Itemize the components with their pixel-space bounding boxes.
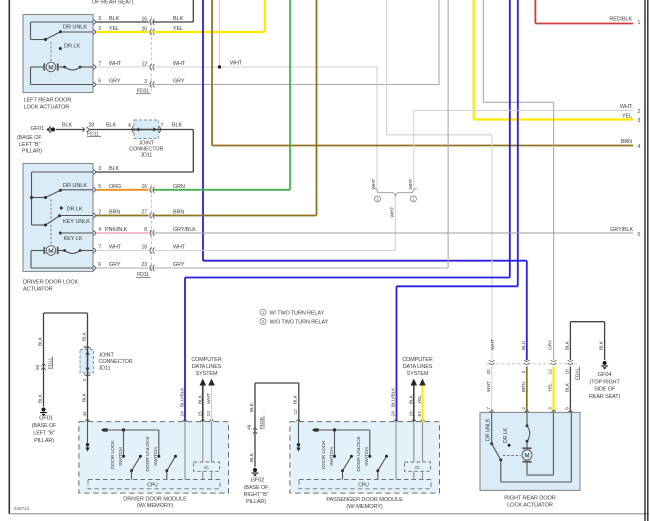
svg-text:YEL: YEL [622, 113, 632, 119]
driver actuator DR LK contact [60, 207, 63, 210]
module data wires into IC [413, 422, 415, 462]
svg-text:KEY LK: KEY LK [64, 236, 83, 242]
wire BRN driver to top edge at x=316.5 [153, 215, 317, 217]
svg-text:SWITCH: SWITCH [118, 447, 124, 466]
svg-text:16: 16 [565, 369, 571, 375]
svg-text:3: 3 [548, 407, 554, 410]
svg-text:KEY UNLK: KEY UNLK [63, 219, 90, 225]
svg-text:CPU: CPU [358, 482, 369, 488]
wire BLK driver pin 3 to GF01 corner [96, 171, 193, 173]
left rear door lock actuator box [23, 15, 93, 93]
joint connector JD11 horizontal [131, 120, 162, 139]
wire GRY left rear rises to top edge at x=439 [153, 84, 439, 86]
wire BLK from JD11 into driver door module pin 4 [87, 373, 89, 422]
svg-text:23: 23 [141, 262, 147, 268]
wire WHT left rear pin 7 to connector [96, 66, 148, 68]
wire BLU vertical x=517.8 from top edge to passenger door module pin 24 [517, 0, 519, 286]
svg-text:BRN: BRN [621, 139, 632, 145]
svg-text:YEL: YEL [548, 383, 554, 392]
svg-text:JOINT: JOINT [99, 353, 115, 359]
svg-text:RIGHT REAR DOOR: RIGHT REAR DOOR [504, 496, 556, 502]
svg-text:BLK: BLK [82, 392, 88, 402]
svg-text:PILLAR): PILLAR) [34, 438, 54, 444]
svg-text:CPU: CPU [147, 482, 158, 488]
circled 2 relay variant marker [375, 196, 381, 202]
svg-text:4: 4 [98, 227, 101, 233]
svg-text:24: 24 [391, 411, 397, 417]
module pin 24 wire to CPU [395, 422, 397, 480]
svg-text:SYSTEM: SYSTEM [196, 371, 218, 377]
left rear actuator DR LK contact [59, 47, 62, 50]
svg-text:DR LK: DR LK [503, 427, 509, 443]
brace merging WHT variants into single WHT [373, 188, 417, 196]
wire PNK/BLK driver pin 4 to connector [96, 232, 148, 234]
right rear actuator connector FD41 dashed line [486, 363, 578, 365]
svg-text:GF02: GF02 [251, 478, 265, 484]
wire WHT into right rear pin 20/7 [489, 360, 495, 365]
computer data lines arrows [413, 385, 415, 422]
svg-text:GRY: GRY [109, 79, 121, 85]
svg-text:YEL: YEL [173, 26, 183, 32]
svg-text:GRY: GRY [548, 339, 554, 350]
svg-text:BLK: BLK [62, 123, 72, 129]
svg-text:GF01: GF01 [39, 416, 53, 422]
svg-text:DR UNLK: DR UNLK [63, 25, 87, 31]
svg-text:BRN: BRN [521, 381, 527, 392]
svg-text:COMPUTER: COMPUTER [402, 357, 432, 363]
svg-text:3: 3 [521, 371, 527, 374]
svg-text:BLK: BLK [106, 123, 116, 129]
svg-text:GF04: GF04 [598, 372, 612, 378]
svg-text:PILLAR): PILLAR) [22, 148, 42, 154]
svg-text:(W/ MEMORY): (W/ MEMORY) [346, 504, 383, 510]
svg-text:WHT: WHT [620, 104, 633, 110]
wire GRY from top edge x=483.4 jog to x=553.6 down to right rear pin 12 [482, 0, 484, 102]
svg-text:ACTUATOR: ACTUATOR [23, 287, 53, 293]
wire GRN driver to top edge at x=290 [153, 189, 290, 191]
svg-text:24: 24 [180, 411, 186, 417]
svg-text:27: 27 [141, 210, 147, 216]
svg-text:28: 28 [89, 123, 95, 129]
svg-text:BLK: BLK [598, 340, 604, 350]
svg-text:4: 4 [128, 123, 131, 129]
svg-text:1: 1 [638, 20, 641, 26]
svg-text:LOCK ACTUATOR: LOCK ACTUATOR [507, 503, 553, 509]
svg-text:20: 20 [141, 27, 147, 33]
module pin 24 wire to CPU [184, 422, 186, 480]
svg-text:5: 5 [638, 232, 641, 238]
right rear actuator internal wiring [490, 412, 571, 482]
module ground pin wire with node dot and arrow [87, 422, 89, 448]
wire BRN driver pin 2 to connector [96, 215, 148, 217]
svg-text:PASSENGER DOOR MODULE: PASSENGER DOOR MODULE [326, 497, 403, 503]
inline connector FD11 driver [136, 184, 154, 278]
CPU box [88, 480, 220, 489]
door lock switch [343, 456, 352, 471]
svg-text:M: M [524, 452, 530, 459]
svg-text:SWITCH: SWITCH [153, 447, 159, 466]
svg-text:2: 2 [521, 407, 527, 410]
circled 1 relay variant marker [410, 196, 416, 202]
svg-text:6: 6 [98, 262, 101, 268]
svg-text:GF01: GF01 [31, 126, 45, 132]
wire WHT driver to merged brace wire [153, 250, 395, 252]
svg-text:3: 3 [98, 166, 101, 172]
svg-text:WHT: WHT [230, 61, 243, 67]
svg-text:12: 12 [293, 409, 299, 415]
svg-text:BLK: BLK [37, 393, 43, 403]
merged WHT wire down to driver actuator WHT row [394, 197, 396, 251]
wire BLU vertical x=203 from top edge down to y=260.7 then right to x=526.8 [202, 0, 204, 261]
module pin entry chevrons [296, 419, 300, 422]
svg-text:BRN: BRN [173, 210, 184, 216]
wire BLK jog to ground GF04 [570, 321, 604, 323]
wire BRN vertical x=316.5 from top edge to driver BRN row [316, 0, 318, 216]
wire BLK to joint connector JD11 vertical [87, 313, 89, 350]
svg-text:(BASE OF: (BASE OF [32, 423, 57, 429]
legend circled 2 W/O TWO TURN RELAY [260, 318, 266, 324]
svg-text:BLK: BLK [565, 382, 571, 392]
svg-text:2: 2 [82, 379, 88, 382]
svg-text:GRY: GRY [173, 79, 185, 85]
svg-text:BLK: BLK [249, 452, 255, 462]
svg-text:M: M [48, 64, 54, 71]
svg-text:WHT: WHT [173, 245, 186, 251]
left rear actuator motor M [31, 62, 94, 84]
svg-text:GRN: GRN [173, 184, 185, 190]
svg-text:M: M [48, 248, 54, 255]
svg-text:16: 16 [141, 17, 147, 23]
svg-text:SIDE OF: SIDE OF [594, 387, 616, 393]
driver actuator motor M [31, 246, 93, 268]
svg-text:BLU/BLK: BLU/BLK [391, 387, 397, 407]
wire YEL left rear pin 2 to connector [96, 31, 148, 33]
wire GRY/BLK driver to right edge pin 5 [153, 232, 633, 234]
inline connector 28 FD11 [83, 123, 102, 138]
svg-text:WHT: WHT [173, 61, 186, 67]
svg-text:COMPUTER: COMPUTER [191, 357, 221, 363]
svg-text:PNK/BLK: PNK/BLK [105, 227, 128, 233]
svg-text:PILLAR): PILLAR) [246, 499, 266, 505]
svg-text:LEFT REAR DOOR: LEFT REAR DOOR [24, 98, 72, 104]
svg-text:7: 7 [98, 61, 101, 67]
svg-text:20: 20 [486, 369, 492, 375]
wire BLK GF01 lower leg with inline connector 50 FD11 [35, 313, 88, 407]
driver actuator internal wiring [30, 172, 93, 245]
legend circled 1 W/ TWO TURN RELAY [260, 309, 266, 315]
svg-text:DOOR LOCK: DOOR LOCK [110, 440, 116, 469]
svg-text:ORG: ORG [109, 184, 121, 190]
svg-text:50: 50 [35, 364, 41, 370]
svg-text:DR LK: DR LK [67, 206, 83, 212]
svg-text:3: 3 [144, 79, 147, 85]
wire BRN vertical x=212 from top edge to right edge pin 4 [211, 0, 213, 146]
svg-text:SWITCH: SWITCH [364, 447, 370, 466]
right rear actuator pin entry chevrons [490, 410, 494, 413]
IC box [194, 462, 220, 471]
svg-text:WHT: WHT [486, 381, 492, 392]
computer data lines arrows [202, 385, 204, 422]
svg-text:18: 18 [141, 245, 147, 251]
svg-text:16: 16 [141, 184, 147, 190]
svg-text:4: 4 [82, 414, 88, 417]
svg-text:BLU: BLU [521, 340, 527, 350]
svg-text:BLK: BLK [109, 166, 119, 172]
svg-text:DATA LINES: DATA LINES [403, 364, 433, 370]
svg-text:DR LK: DR LK [64, 43, 80, 49]
svg-text:12: 12 [141, 62, 147, 68]
wire YEL left rear rises to top edge at x=264.8 [153, 31, 265, 33]
svg-text:SYSTEM: SYSTEM [407, 371, 429, 377]
svg-text:BLK: BLK [249, 402, 255, 412]
svg-text:LEFT "B": LEFT "B" [33, 431, 55, 437]
svg-text:BLK: BLK [293, 394, 299, 404]
wire BLK GF02 leg with inline connector 49 FD2E [246, 383, 298, 467]
svg-text:JD11: JD11 [140, 153, 152, 159]
wire WHT pin 2 from right edge to brace variant 1 [414, 110, 633, 112]
svg-text:DOOR LOCK: DOOR LOCK [321, 440, 327, 469]
svg-text:8: 8 [144, 227, 147, 233]
svg-text:DRIVER DOOR MODULE: DRIVER DOOR MODULE [123, 496, 187, 502]
svg-text:GRY/BLK: GRY/BLK [173, 227, 196, 233]
door unlock switch [378, 456, 387, 471]
wire ORG driver pin 5 to connector [96, 189, 148, 191]
wire WHT driver pin 7 to connector [96, 250, 148, 252]
module pin entry chevrons [85, 419, 89, 422]
svg-text:(BASE OF: (BASE OF [17, 135, 42, 141]
driver actuator pin chevrons 3,5,2,4,7,6 [93, 170, 96, 175]
left rear actuator pin chevrons 3,2,7,6 [93, 20, 96, 25]
svg-text:DR UNLK: DR UNLK [63, 183, 87, 189]
svg-text:BLK: BLK [173, 16, 183, 22]
svg-text:BLK: BLK [565, 340, 571, 350]
svg-text:12: 12 [548, 369, 554, 375]
svg-text:BLK: BLK [172, 123, 182, 129]
joint connector JD11 vertical [80, 347, 94, 377]
svg-text:LOCK ACTUATOR: LOCK ACTUATOR [24, 105, 70, 111]
driver door lock actuator box [23, 164, 93, 272]
svg-text:REAR SEAT): REAR SEAT) [589, 394, 621, 400]
svg-text:DATA LINES: DATA LINES [192, 364, 222, 370]
wire GRY driver pin 6 to connector [96, 267, 148, 269]
svg-text:GRY: GRY [109, 262, 121, 268]
door module box [79, 422, 229, 494]
svg-text:4: 4 [638, 144, 641, 150]
svg-text:DR UNLK: DR UNLK [485, 418, 491, 441]
CPU box [299, 480, 431, 489]
svg-text:BLU/BLK: BLU/BLK [180, 387, 186, 407]
wire WHT left rear with branch to top edge, corner down at x=377 [153, 66, 377, 68]
driver actuator KEY LK contact to pin 4 [59, 232, 62, 235]
svg-text:(W/ MEMORY): (W/ MEMORY) [137, 503, 174, 509]
module ground pin wire with node dot and arrow [298, 422, 300, 448]
wire BLK left rear rises to top edge at x=193.3 [153, 21, 194, 23]
svg-text:OF REAR SEAT): OF REAR SEAT) [92, 0, 134, 5]
svg-text:SWITCH: SWITCH [329, 447, 335, 466]
module switch common rail [312, 428, 371, 458]
module switch common rail [101, 428, 160, 458]
ground GF04 (top right side of rear seat) [589, 361, 621, 400]
right rear door lock actuator box [480, 412, 580, 490]
svg-text:GRY: GRY [173, 262, 185, 268]
svg-text:DRIVER DOOR LOCK: DRIVER DOOR LOCK [23, 280, 78, 286]
svg-text:GRY/BLK: GRY/BLK [610, 227, 633, 233]
svg-text:WHT: WHT [408, 179, 414, 190]
svg-text:RIGHT "B": RIGHT "B" [244, 492, 269, 498]
inline connector FD31 [136, 16, 154, 95]
right rear actuator motor M [522, 412, 553, 475]
svg-text:WHT: WHT [109, 245, 122, 251]
IC box [405, 462, 431, 471]
wire GRN vertical x=290 from top edge to driver GRN row [289, 0, 291, 190]
svg-text:WHT: WHT [371, 179, 377, 190]
svg-text:IC: IC [415, 465, 420, 470]
svg-text:CONNECTOR: CONNECTOR [99, 359, 133, 365]
wire GRY driver to top edge at x=439... rises at x=448 [153, 267, 448, 269]
svg-text:RED/BLK: RED/BLK [609, 17, 632, 23]
svg-text:JD11: JD11 [99, 366, 111, 372]
svg-text:DOOR UNLOCK: DOOR UNLOCK [356, 435, 362, 471]
svg-text:YEL: YEL [109, 26, 119, 32]
door unlock switch [167, 456, 176, 471]
svg-text:WHT: WHT [490, 339, 496, 350]
svg-text:WHT: WHT [109, 61, 122, 67]
svg-text:49: 49 [246, 424, 252, 430]
svg-text:540712: 540712 [14, 506, 30, 511]
svg-text:IC: IC [204, 465, 209, 470]
svg-text:7: 7 [486, 407, 492, 410]
ground GF01 (base of left B pillar) upper [17, 126, 55, 155]
svg-text:7: 7 [98, 245, 101, 251]
wire GRY left rear pin 6 to connector [96, 84, 148, 86]
wire WHT from top edge x=386.6 jog to x=492 down to right rear pin 20 [386, 0, 388, 135]
wire GRY becomes YEL into right rear pin 12/3 [551, 360, 557, 365]
wire BLK left rear pin 3 to connector [96, 21, 148, 23]
svg-text:6: 6 [565, 407, 571, 410]
svg-text:WHT: WHT [390, 207, 396, 218]
ground GF01 lower (base of left B pillar) [32, 407, 57, 444]
svg-text:BRN: BRN [109, 210, 120, 216]
door lock switch [132, 456, 141, 471]
left rear actuator internal wiring [31, 22, 94, 61]
svg-text:W/ TWO TURN RELAY: W/ TWO TURN RELAY [270, 310, 325, 316]
svg-text:(BASE OF: (BASE OF [244, 485, 269, 491]
wire YEL vertical x=473.7 from top edge to right edge pin 3 [473, 0, 475, 120]
module data wires into IC [202, 422, 204, 462]
svg-text:3: 3 [98, 16, 101, 22]
wire BLK from GF01 to inline connector FD11 [56, 129, 84, 131]
svg-text:7: 7 [161, 123, 164, 129]
wire BLK to joint connector JD11 [90, 129, 134, 131]
wire BLU becomes BRN into right rear pin 3/2 [526, 261, 528, 361]
svg-text:W/O TWO TURN RELAY: W/O TWO TURN RELAY [270, 320, 329, 326]
wire BLU vertical x=509.8 from top edge to driver door module pin 24 [509, 0, 511, 278]
svg-text:6: 6 [98, 79, 101, 85]
svg-text:2: 2 [638, 109, 641, 115]
right rear actuator DR LK contact [508, 444, 511, 447]
wire BLK into passenger module pin 12 [298, 383, 300, 422]
svg-text:BLK: BLK [82, 331, 88, 341]
svg-text:BLK: BLK [37, 336, 43, 346]
svg-text:DOOR UNLOCK: DOOR UNLOCK [145, 435, 151, 471]
svg-text:3: 3 [638, 118, 641, 124]
svg-text:(TOP RIGHT: (TOP RIGHT [589, 379, 620, 385]
ground GF02 (base of right B pillar) [244, 468, 270, 505]
svg-text:BLK: BLK [109, 16, 119, 22]
svg-text:LEFT "B": LEFT "B" [19, 142, 41, 148]
door module box [290, 422, 440, 494]
wire BLK into right rear pin 16/6 from GF04 [569, 322, 571, 361]
wire RED/BLK from top edge x=535.4 to right edge pin 1 [534, 0, 536, 24]
